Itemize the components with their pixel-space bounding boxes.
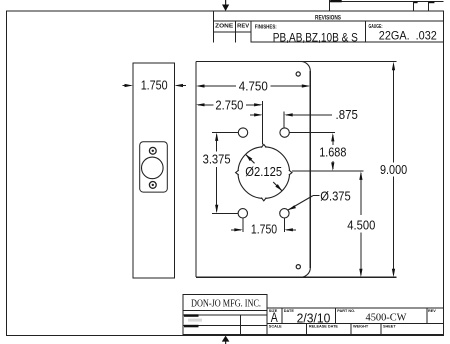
title block: right section top line bbox=[267, 307, 444, 309]
svg-text:Ø.375: Ø.375 bbox=[320, 189, 351, 204]
svg-text:PART NO.: PART NO. bbox=[337, 309, 355, 313]
finishes/gauge separator bbox=[365, 21, 367, 42]
dim 1.750 bottom tails bbox=[231, 229, 241, 231]
top right small hole bbox=[296, 72, 300, 76]
dim 1.688 line bbox=[332, 135, 334, 145]
big lock hole bbox=[238, 147, 290, 199]
arrowheads: dim 1.750 bottom bbox=[234, 228, 243, 231]
part/rev separator bbox=[426, 308, 428, 324]
title block: designer row line bbox=[183, 314, 267, 316]
cut-off table vertical at x=329 bbox=[328, 0, 330, 11]
arrowheads: dim .875 bbox=[254, 113, 263, 116]
svg-text:ZONE: ZONE bbox=[215, 24, 233, 30]
svg-text:REVISIONS: REVISIONS bbox=[315, 14, 341, 21]
top fold arrow bbox=[222, 5, 229, 12]
designer label smear bbox=[184, 314, 199, 317]
svg-text:22GA. .032: 22GA. .032 bbox=[379, 28, 437, 42]
size/date separator bbox=[281, 308, 283, 324]
dim 1.750 side: tails bbox=[123, 85, 132, 87]
rosette bottom screw bbox=[149, 182, 156, 189]
main plate left edge bbox=[195, 62, 197, 278]
svg-text:SHEET: SHEET bbox=[383, 324, 396, 328]
svg-text:1.750: 1.750 bbox=[141, 77, 168, 92]
O.375 leader diagonal bbox=[288, 196, 313, 210]
dim 4.750 line bbox=[198, 85, 236, 87]
dim 9.000 line bbox=[393, 64, 395, 163]
svg-text:PB,AB,BZ,10B & S: PB,AB,BZ,10B & S bbox=[273, 31, 358, 45]
dim 2.750 line bbox=[198, 104, 213, 106]
arrowheads: dim 4.750 bbox=[196, 84, 205, 87]
side piece rectangle bbox=[133, 63, 175, 278]
finishes row bottom bbox=[251, 41, 444, 43]
screw hole BR bbox=[280, 209, 289, 218]
screw hole BL bbox=[238, 209, 247, 218]
rosette plate bbox=[140, 142, 168, 192]
TR hole right extension bbox=[289, 132, 335, 134]
title block: right section left edge bbox=[266, 308, 268, 335]
bottom fold arrow bbox=[222, 336, 230, 342]
main plate bottom-right corner arc bbox=[301, 268, 311, 278]
svg-text:DON-JO MFG. INC.: DON-JO MFG. INC. bbox=[191, 299, 261, 310]
scale/release separator bbox=[306, 324, 308, 335]
rosette top screw bbox=[149, 147, 156, 154]
svg-text:SCALE: SCALE bbox=[269, 324, 282, 328]
dim .875 line bbox=[250, 114, 261, 116]
date/part separator bbox=[335, 308, 337, 324]
title block: DON-JO box bbox=[183, 295, 267, 311]
svg-text:FINISHES:: FINISHES: bbox=[255, 24, 277, 30]
center horizontal extension bbox=[292, 170, 363, 172]
svg-text:4.500: 4.500 bbox=[347, 217, 375, 232]
svg-text:2.750: 2.750 bbox=[215, 98, 243, 113]
svg-text:4.750: 4.750 bbox=[239, 78, 268, 93]
svg-text:.875: .875 bbox=[336, 107, 358, 122]
main plate top-right corner arc bbox=[301, 62, 311, 72]
cut-off text remnants bbox=[330, 0, 342, 2]
svg-text:1.688: 1.688 bbox=[319, 144, 346, 159]
zone/rev underline bbox=[214, 31, 252, 33]
dim 4.500 line bbox=[360, 173, 362, 215]
dim 3.375 line bbox=[216, 135, 218, 152]
screw hole TL bbox=[238, 128, 247, 137]
cut-off table vertical at x=413.6 bbox=[413, 1, 415, 11]
title block: approved row line bbox=[183, 325, 267, 327]
title block: second bottom line bbox=[183, 333, 444, 335]
lock hole beaks N E S W bbox=[236, 144, 292, 200]
cut-off table vertical at x=428.3 bbox=[427, 1, 429, 11]
arrowheads: dim 3.375 bbox=[215, 132, 218, 141]
screw hole TR bbox=[280, 128, 289, 137]
3.375 bottom extension bbox=[212, 212, 238, 214]
revisions table: left edge bbox=[213, 11, 215, 43]
svg-text:DATE: DATE bbox=[284, 309, 295, 313]
center extension line bbox=[262, 101, 264, 145]
rosette big circle bbox=[142, 157, 164, 179]
revisions table: zone/rev separators bbox=[235, 21, 237, 43]
weight/sheet separator bbox=[380, 324, 382, 335]
arrowheads: dim 4.500 bbox=[359, 171, 362, 180]
arrowheads: dim 1.688 bbox=[331, 133, 334, 142]
O2.125 leader segments bbox=[246, 154, 255, 163]
svg-text:REV: REV bbox=[428, 309, 436, 313]
release/weight separator bbox=[350, 324, 352, 335]
main plate right edge bbox=[309, 71, 311, 268]
bottom hole stubs bbox=[242, 218, 244, 232]
svg-text:A: A bbox=[271, 310, 278, 325]
title block: left section left edge bbox=[182, 311, 184, 336]
designer cell ghost mark bbox=[188, 319, 202, 322]
arrowheads: dim 9.000 bbox=[392, 62, 395, 71]
3.375 top extension bbox=[212, 132, 238, 134]
bottom right small hole bbox=[296, 265, 300, 269]
svg-text:REV: REV bbox=[237, 24, 249, 30]
title block: left mid vertical bbox=[240, 315, 242, 335]
approved label smear bbox=[184, 325, 199, 328]
revisions table: header bottom line bbox=[214, 20, 444, 22]
main plate bottom edge bbox=[196, 276, 396, 278]
arrowheads: O2.125 leader bbox=[246, 154, 253, 161]
svg-text:RELEASE DATE: RELEASE DATE bbox=[309, 324, 339, 328]
cut-off table above border: horizontal line bbox=[329, 0, 443, 2]
arrowheads: dim 2.750 bbox=[196, 103, 205, 106]
svg-text:1.750: 1.750 bbox=[251, 221, 277, 236]
O.375 leader horizontal tail bbox=[313, 195, 320, 197]
arrowheads: dim 1.750 side bbox=[125, 84, 134, 87]
svg-text:9.000: 9.000 bbox=[380, 162, 407, 177]
svg-text:3.375: 3.375 bbox=[203, 151, 231, 166]
arrowhead: O.375 leader bbox=[288, 205, 296, 210]
main plate top edge bbox=[196, 61, 396, 63]
svg-text:Ø2.125: Ø2.125 bbox=[245, 164, 282, 179]
svg-text:WEIGHT: WEIGHT bbox=[353, 324, 369, 328]
svg-text:4500-CW: 4500-CW bbox=[366, 312, 407, 323]
title block: right section row line bbox=[267, 323, 444, 325]
TR hole upper stub bbox=[283, 111, 285, 128]
